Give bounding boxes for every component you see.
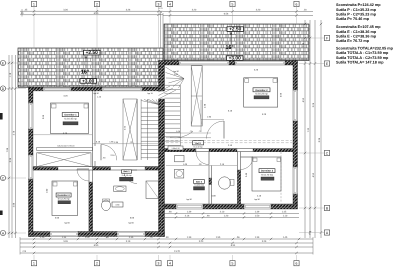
right grid bubbles: [299, 35, 330, 235]
dashed line at bed3 right: [280, 152, 282, 202]
svg-text:6.90: 6.90: [94, 244, 99, 247]
svg-text:1.20: 1.20: [224, 214, 229, 217]
svg-text:8.26: 8.26: [9, 157, 12, 162]
svg-text:1.10: 1.10: [40, 236, 45, 239]
svg-text:Sutila P - C1=35.23 mp: Sutila P - C1=35.23 mp: [336, 8, 377, 12]
svg-text:3.20: 3.20: [256, 9, 261, 12]
top dimension lines right block: [163, 9, 313, 17]
door arc into bedroom 3: [77, 169, 89, 181]
bottom dimension rows: [20, 211, 313, 255]
winder treads crossing party wall gap: [159, 86, 177, 99]
svg-text:6.90: 6.90: [94, 12, 99, 15]
svg-text:6: 6: [296, 262, 298, 266]
central party wall between the two apartment halves: [159, 61, 165, 237]
svg-text:4: 4: [169, 262, 171, 266]
svg-text:Sutila P= 70.46 mp: Sutila P= 70.46 mp: [336, 17, 370, 21]
svg-text:2: 2: [96, 2, 98, 6]
bath2 label: [194, 180, 205, 190]
door arc hall2 to bath2: [196, 152, 209, 165]
svg-text:3.23: 3.23: [199, 240, 204, 243]
staircase lower flight (crossed) left of party wall: [123, 99, 137, 160]
svg-text:3.26: 3.26: [126, 8, 131, 11]
door arc to bedroom3 right: [241, 157, 254, 170]
staircase treads west flight: [141, 108, 158, 158]
svg-text:6: 6: [296, 2, 298, 6]
svg-text:F: F: [326, 36, 328, 40]
roof plane right (hatched shingles): [164, 24, 309, 61]
wardrobe with cross right block: [191, 66, 202, 126]
svg-text:1.45: 1.45: [283, 236, 288, 239]
svg-text:Baie 2: Baie 2: [196, 180, 203, 183]
svg-text:5: 5: [232, 262, 234, 266]
svg-text:Sutila TOTALA= 147.18 mp: Sutila TOTALA= 147.18 mp: [336, 60, 384, 64]
svg-text:1.55: 1.55: [216, 236, 221, 239]
interior wall hall west / bedroom1 east (vertical): [93, 91, 96, 167]
svg-text:3.20: 3.20: [192, 9, 197, 12]
washbasin bath2: [175, 169, 184, 178]
room label bedroom 1: [62, 113, 78, 125]
svg-text:Sutila E= 76.72 mp: Sutila E= 76.72 mp: [336, 39, 370, 43]
svg-text:8.26: 8.26: [318, 137, 321, 142]
svg-text:Hol 2: Hol 2: [195, 142, 201, 145]
svg-text:Sutila E - C1=38.36 mp: Sutila E - C1=38.36 mp: [336, 30, 377, 34]
svg-text:hgr 15: hgr 15: [147, 92, 152, 95]
svg-text:6.56: 6.56: [224, 13, 229, 16]
exterior wall right side of right block with two windows: [293, 61, 298, 205]
svg-text:1.39: 1.39: [255, 236, 260, 239]
roof plane left (hatched shingles): [18, 48, 163, 87]
svg-text:3.26: 3.26: [63, 8, 68, 11]
svg-text:hgr.90: hgr.90: [64, 222, 69, 225]
bed bedroom 3 (lower-left): [52, 181, 78, 216]
svg-text:3: 3: [158, 2, 160, 6]
svg-text:S=12.70 mp: S=12.70 mp: [261, 173, 274, 176]
svg-text:2: 2: [96, 262, 98, 266]
svg-text:S=12.70 mp: S=12.70 mp: [58, 198, 71, 201]
svg-text:Sutila P - C2=35.23 mp: Sutila P - C2=35.23 mp: [336, 12, 377, 16]
svg-text:Dormitor 3: Dormitor 3: [261, 170, 274, 173]
svg-text:2.10: 2.10: [220, 211, 225, 214]
door arc at stair exit: [166, 130, 211, 138]
slope arrow right roof: [230, 32, 232, 45]
svg-text:2.06: 2.06: [312, 102, 315, 107]
svg-text:1.39: 1.39: [255, 211, 260, 214]
svg-text:1: 1: [33, 2, 35, 6]
staircase winder fan west: [141, 99, 158, 104]
washbasin bath1: [114, 186, 126, 192]
interior dimension texts: [33, 69, 283, 225]
exterior wall top of left block with two windows: [29, 87, 159, 91]
svg-text:3.88: 3.88: [13, 202, 16, 207]
svg-text:Sconstruita P=124.42 mp: Sconstruita P=124.42 mp: [336, 3, 381, 7]
balustrade over void: [37, 145, 93, 151]
svg-text:S=16.23 mp: S=16.23 mp: [255, 93, 268, 96]
level label +2.50 right roof: [227, 27, 244, 33]
svg-text:1.34: 1.34: [62, 236, 67, 239]
door size tag hol2: [168, 146, 183, 150]
svg-text:6.54: 6.54: [231, 244, 236, 247]
radiator bath2: [175, 156, 185, 162]
WC bath1: [102, 199, 111, 211]
scan mark left edge lower: [0, 211, 3, 216]
WC bath2: [219, 177, 235, 189]
svg-text:S=16.45 mp: S=16.45 mp: [64, 118, 77, 121]
svg-text:Sconstruita TOTALA=232.05 mp: Sconstruita TOTALA=232.05 mp: [336, 47, 394, 51]
svg-text:1.18: 1.18: [9, 72, 12, 77]
svg-text:2.76: 2.76: [13, 130, 16, 135]
room label bedroom 3 right: [259, 169, 275, 181]
svg-text:hgr.90: hgr.90: [128, 222, 133, 225]
svg-text:4: 4: [169, 2, 171, 6]
svg-text:1: 1: [33, 262, 35, 266]
svg-text:5: 5: [232, 2, 234, 6]
svg-text:16°: 16°: [81, 70, 89, 76]
svg-text:3.29: 3.29: [262, 240, 267, 243]
exterior wall left side of left block with two windows: [29, 87, 34, 236]
top dimension lines left block: [20, 7, 163, 16]
svg-text:S=4.60 mp: S=4.60 mp: [194, 184, 205, 187]
wardrobe front line bedroom2: [200, 100, 202, 131]
staircase winder fan east: [166, 67, 185, 88]
svg-text:Sutila TOTALA - C2=73.59 mp: Sutila TOTALA - C2=73.59 mp: [336, 56, 389, 60]
door into bedroom 2: [201, 119, 224, 138]
svg-text:Dormitor 1: Dormitor 1: [64, 114, 77, 117]
level label +2.50 left roof: [84, 50, 101, 56]
svg-text:hgr 90: hgr 90: [93, 92, 98, 95]
bedroom3 partition wall left block: [89, 170, 93, 232]
svg-text:7.86: 7.86: [6, 147, 9, 152]
svg-text:1.45: 1.45: [282, 211, 287, 214]
bed bedroom 2: [244, 78, 278, 107]
tag box near WC bath1: [112, 202, 123, 207]
svg-text:+3.00: +3.00: [82, 78, 94, 84]
room label bedroom 2: [253, 88, 270, 99]
svg-text:2.35: 2.35: [129, 236, 134, 239]
left grid bubbles: [0, 60, 26, 235]
interior wall right block hall (horizontal): [165, 149, 294, 152]
svg-text:3: 3: [158, 262, 160, 266]
svg-text:16°: 16°: [225, 45, 233, 51]
svg-text:S=4.43 mp: S=4.43 mp: [193, 145, 202, 148]
svg-text:Dormitor 3: Dormitor 3: [58, 194, 71, 197]
room label bedroom 3: [56, 193, 71, 204]
svg-text:2.00: 2.00: [174, 73, 178, 76]
area computation text block: [336, 3, 394, 64]
svg-text:1.18: 1.18: [302, 42, 305, 47]
svg-text:hgr 90: hgr 90: [186, 198, 191, 201]
svg-text:3.26: 3.26: [63, 240, 68, 243]
door arc hall lower: [101, 125, 127, 160]
exterior wall bottom of left block with two windows: [29, 232, 165, 237]
svg-text:Sutila E - C2=38.36 mp: Sutila E - C2=38.36 mp: [336, 34, 377, 38]
bed bedroom 1: [51, 103, 89, 134]
svg-text:3.19: 3.19: [126, 240, 131, 243]
svg-text:Baie 1: Baie 1: [123, 170, 130, 173]
hall label right block: [193, 141, 204, 149]
svg-text:4.50: 4.50: [312, 172, 315, 177]
svg-text:hgr 90: hgr 90: [173, 70, 178, 73]
exterior wall bottom of right block with two windows: [165, 204, 298, 209]
grid bubbles top: [31, 1, 299, 48]
svg-text:1.08x2.10: 1.08x2.10: [172, 147, 180, 150]
exterior wall top of right block with two windows: [165, 61, 298, 66]
svg-text:+2.50: +2.50: [86, 50, 98, 56]
void over ground floor (crossed rectangle): [37, 153, 91, 167]
svg-text:Sutila TOTALA - C1=73.59 mp: Sutila TOTALA - C1=73.59 mp: [336, 51, 389, 55]
svg-text:7.20: 7.20: [307, 127, 310, 132]
svg-text:balustrada h=90cm: balustrada h=90cm: [57, 145, 74, 148]
interior wall bath2 / bedroom3 right block (vertical): [238, 152, 241, 204]
level label +3.00 left roof: [80, 78, 97, 84]
svg-text:0.90: 0.90: [116, 204, 120, 207]
svg-text:Dormitor 2: Dormitor 2: [255, 89, 268, 92]
svg-text:13.70: 13.70: [174, 250, 180, 253]
shower bath1: [146, 181, 159, 199]
level label +3.00 right roof: [227, 56, 244, 62]
svg-text:1.39: 1.39: [187, 236, 192, 239]
bed bedroom 3 right: [252, 157, 281, 191]
scan mark left edge upper: [0, 113, 3, 120]
staircase rails: [137, 99, 147, 160]
svg-text:1.10: 1.10: [283, 214, 288, 217]
svg-text:1.50: 1.50: [255, 214, 260, 217]
shower screen wall in bath2 (vertical): [209, 166, 212, 205]
svg-text:1.39: 1.39: [187, 211, 192, 214]
svg-text:4.50: 4.50: [302, 97, 305, 102]
left vertical dimension lines: [6, 55, 17, 238]
svg-text:S=4.10 mp: S=4.10 mp: [122, 174, 133, 177]
bath1 label: [120, 170, 134, 181]
svg-text:hgr 90: hgr 90: [254, 198, 259, 201]
svg-text:1.20: 1.20: [85, 236, 90, 239]
right vertical dimension lines: [302, 20, 322, 238]
staircase treads east flight: [165, 85, 181, 148]
facade step wall lines between roof planes: [161, 13, 164, 48]
grid bubbles bottom: [31, 255, 299, 266]
svg-text:2.16: 2.16: [185, 214, 190, 217]
svg-text:Sconstruita E=107.45 mp: Sconstruita E=107.45 mp: [336, 25, 381, 29]
door arc into bath 1: [124, 170, 138, 184]
slope arrow left roof: [85, 55, 87, 68]
interior wall bathroom/bedrooms left block (horizontal): [33, 167, 159, 170]
dashed section lines right block: [166, 140, 292, 143]
